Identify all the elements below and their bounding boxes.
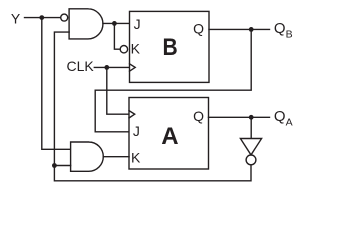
svg-text:QA: QA xyxy=(274,108,293,128)
AND gate G1 xyxy=(69,9,103,39)
clock edge triangle of B xyxy=(130,64,136,71)
wire QB output xyxy=(209,28,270,30)
flip-flop B box xyxy=(130,11,210,82)
svg-text:Q: Q xyxy=(193,20,204,36)
junction QA-bar node xyxy=(52,163,57,168)
wire QB feedback to J of A xyxy=(95,29,251,131)
svg-text:QB: QB xyxy=(274,20,293,40)
svg-text:Q: Q xyxy=(193,108,204,124)
inverted input bubble on gate G1 xyxy=(61,14,68,21)
junction QB node xyxy=(249,27,254,32)
AND gate G2 xyxy=(71,142,104,171)
svg-text:K: K xyxy=(131,149,141,165)
wire QA-bar net: G1 lower input, down left side, bottom run, up to inverter bubble xyxy=(54,32,251,181)
wire G1 output to K-bubble of B xyxy=(114,23,120,49)
inverter U1 output bubble xyxy=(246,155,256,165)
junction G1 output node xyxy=(112,21,117,26)
wire G1 output to J of B xyxy=(103,22,130,24)
svg-text:J: J xyxy=(133,123,140,139)
wire Y feedback to gate G2 top input xyxy=(42,18,71,150)
svg-text:Y: Y xyxy=(11,10,21,26)
flip-flop A box xyxy=(129,98,209,170)
wire QA to inverter U1 xyxy=(250,117,252,138)
svg-text:CLK: CLK xyxy=(67,58,95,74)
wire CLK branch to clock of A xyxy=(107,67,129,114)
junction Y node xyxy=(39,15,44,20)
svg-text:A: A xyxy=(161,123,178,150)
svg-text:B: B xyxy=(163,34,178,61)
wire QA-bar stub to G2 lower input xyxy=(54,165,70,167)
wire CLK lead xyxy=(94,66,129,68)
inverter U1 triangle xyxy=(240,139,261,155)
inversion bubble on K input of B xyxy=(120,46,127,53)
junction QA node xyxy=(249,115,254,120)
svg-text:K: K xyxy=(131,41,141,57)
wire Y input lead xyxy=(25,17,61,19)
clock edge triangle of A xyxy=(129,111,135,118)
wire QA output xyxy=(209,116,270,118)
wire G2 output to K of A xyxy=(103,156,129,158)
junction CLK node xyxy=(104,65,109,70)
svg-text:J: J xyxy=(134,16,141,32)
